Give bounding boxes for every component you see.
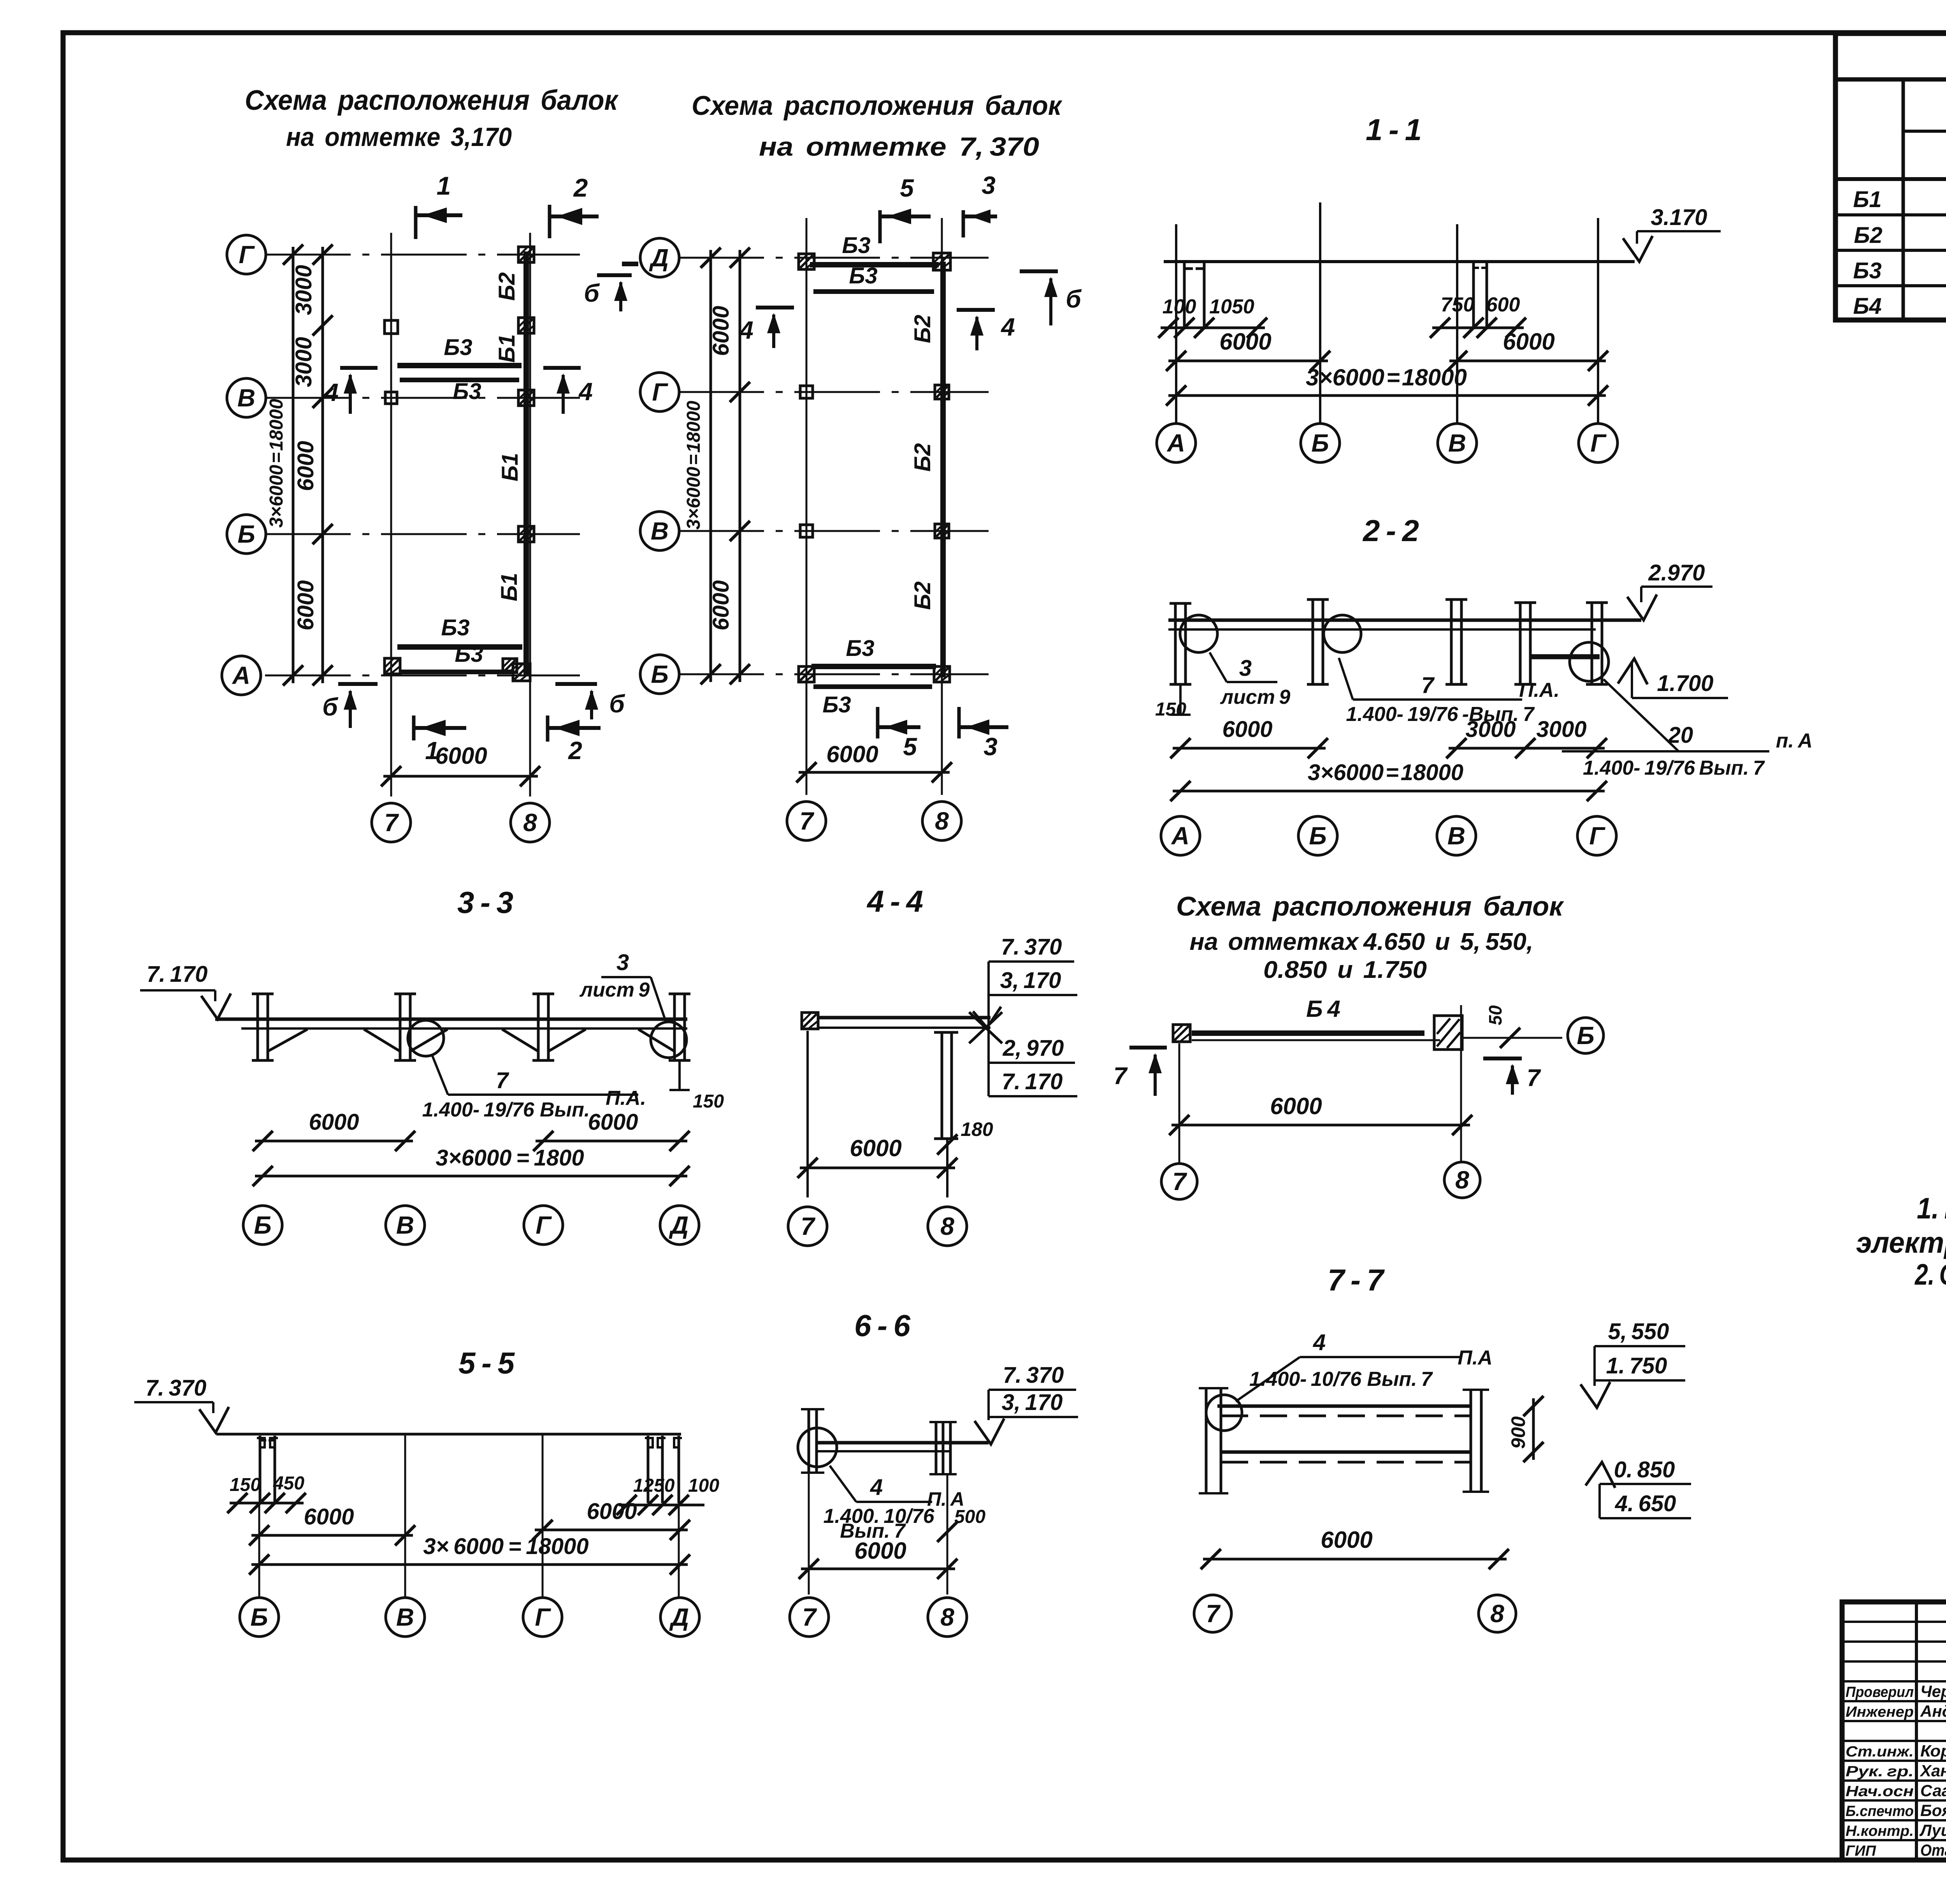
svg-text:3: 3: [1239, 656, 1252, 681]
svg-text:Б3: Б3: [846, 636, 874, 661]
sec7-7 axis circle 7: [1194, 1595, 1231, 1632]
sec6-6 beam lines: [817, 1441, 989, 1445]
svg-text:6000: 6000: [293, 441, 318, 491]
svg-text:4: 4: [324, 378, 339, 406]
svg-text:А: А: [232, 661, 250, 689]
sec2-2 axis circle Б: [1298, 816, 1337, 855]
svg-text:Б3: Б3: [455, 642, 483, 667]
sec3-3 detail circle at В: [408, 1020, 444, 1056]
plan2 bottom dimension 6000: [799, 771, 950, 774]
svg-text:6000: 6000: [587, 1499, 637, 1524]
sec6-6 axis circle 8: [928, 1598, 967, 1637]
plan2 axis circle 8: [922, 802, 961, 840]
sec1-1 dim 750 600: [1432, 327, 1524, 329]
svg-text:7. 370: 7. 370: [1003, 1363, 1064, 1388]
svg-text:на отметках 4.650 и 5, 550,: на отметках 4.650 и 5, 550,: [1190, 928, 1533, 955]
svg-text:В: В: [1448, 429, 1466, 457]
sec4-4 axis circle 8: [928, 1207, 967, 1246]
sec4-4 axis circle 7: [788, 1207, 827, 1246]
svg-text:1.400- 10/76 Вып. 7: 1.400- 10/76 Вып. 7: [1249, 1368, 1433, 1391]
plan1 inner dimension chain 3000 3000 6000 6000: [321, 247, 324, 683]
svg-text:50: 50: [1485, 1005, 1505, 1025]
sec7-7 left column: [1205, 1388, 1208, 1493]
plan1 axis circle Б: [227, 515, 266, 554]
svg-text:1.700: 1.700: [1657, 671, 1713, 696]
svg-text:Н.контр.: Н.контр.: [1846, 1823, 1914, 1839]
svg-text:2.970: 2.970: [1648, 560, 1705, 585]
svg-text:1. Конструкции сварные. Свар: 1. Конструкции сварные. Сварку производи…: [1917, 1192, 1946, 1225]
svg-text:лист 9: лист 9: [1220, 686, 1291, 709]
svg-text:Г: Г: [536, 1211, 552, 1239]
svg-text:0.850 и 1.750: 0.850 и 1.750: [1263, 956, 1427, 983]
svg-text:7: 7: [801, 1212, 816, 1240]
plan1 bottom dimension 6000: [383, 775, 538, 778]
svg-text:2: 2: [568, 737, 582, 765]
svg-text:6000: 6000: [304, 1504, 354, 1530]
plan1 section mark б bottom right: [555, 682, 597, 686]
sec2-2 detail circle at А: [1180, 615, 1217, 652]
svg-text:А: А: [1171, 822, 1189, 850]
svg-text:6000: 6000: [854, 1538, 906, 1564]
sec4-4 dim 180: [937, 1134, 957, 1155]
svg-text:7: 7: [799, 807, 815, 835]
svg-text:Луценко: Луценко: [1919, 1821, 1946, 1839]
svg-text:Д: Д: [669, 1211, 688, 1239]
plan2 outer dimension 3x6000=18000: [710, 250, 712, 682]
svg-text:2. Сварка ручная дуговая: 2. Сварка ручная дуговая hᵤ = 8 мм.: [1914, 1258, 1946, 1291]
svg-text:1 - 1: 1 - 1: [1366, 113, 1422, 147]
svg-text:5: 5: [903, 733, 917, 761]
scheme45 right support hatched: [1434, 1016, 1462, 1050]
svg-text:Б4: Б4: [1853, 294, 1881, 319]
svg-text:8: 8: [1490, 1600, 1504, 1628]
scheme45 left support square: [1173, 1025, 1190, 1042]
svg-text:3×6000 = 18000: 3×6000 = 18000: [266, 399, 287, 527]
table header split line: [1903, 130, 1946, 133]
sec5-5 channel column Б: [259, 1436, 262, 1503]
svg-text:3 - 3: 3 - 3: [457, 885, 513, 919]
sec3-3 axis circle Б: [243, 1206, 282, 1245]
svg-text:на отметке 3,170: на отметке 3,170: [286, 122, 512, 152]
svg-text:2, 970: 2, 970: [1003, 1036, 1064, 1061]
sec3-3 dims 6000 6000: [255, 1140, 413, 1143]
sec6-6 detail circle: [798, 1428, 837, 1467]
sec4-4 break cross at beam end: [969, 1012, 1002, 1043]
svg-text:4: 4: [1313, 1330, 1326, 1355]
sec6-6 dim 6000: [801, 1568, 955, 1570]
svg-text:В: В: [396, 1603, 414, 1631]
svg-text:Г: Г: [535, 1603, 551, 1631]
table Ведомость элементов frame: [1835, 33, 1946, 320]
plan1 open square col7 В: [385, 392, 397, 404]
svg-text:1.400- 19/76 Вып. 7: 1.400- 19/76 Вып. 7: [1583, 757, 1765, 779]
scheme45 section mark 7 left: [1129, 1046, 1167, 1050]
svg-text:3×6000 = 18000: 3×6000 = 18000: [1306, 364, 1467, 390]
svg-text:750: 750: [1441, 294, 1475, 316]
plan1 axis circle 8: [511, 803, 550, 842]
title block outer frame: [1842, 1602, 1946, 1860]
svg-text:Проверил: Проверил: [1846, 1684, 1914, 1700]
sec2-2 detail circle at Б: [1324, 615, 1361, 652]
title block signature table verticals: [1915, 1602, 1918, 1860]
scheme45 axis circle 8: [1444, 1162, 1480, 1198]
sec3-3 column В: [399, 994, 402, 1060]
svg-text:7. 370: 7. 370: [146, 1375, 207, 1401]
scheme45 axis line to Б: [1462, 1037, 1562, 1039]
svg-text:Чернявская: Чернявская: [1920, 1682, 1946, 1700]
sec7-7 top beam: [1217, 1405, 1471, 1408]
svg-text:8: 8: [523, 809, 537, 837]
sec3-3 beam lines: [215, 1018, 687, 1021]
sec7-7 dim 900: [1532, 1398, 1535, 1460]
svg-text:4: 4: [739, 316, 753, 344]
svg-text:0. 850: 0. 850: [1614, 1457, 1675, 1482]
svg-text:Андреева: Андреева: [1920, 1702, 1946, 1720]
svg-text:Г: Г: [652, 378, 668, 406]
plan1 connection squares col7 А: [385, 658, 400, 674]
plan2 beam Б3 top pair: [810, 262, 939, 267]
svg-text:Б1: Б1: [1853, 187, 1881, 212]
sec3-3 axis circle Д: [660, 1206, 699, 1245]
table header bottom line: [1835, 177, 1946, 181]
plan2 section mark 5 top: [878, 210, 882, 243]
svg-text:1. 750: 1. 750: [1606, 1353, 1667, 1378]
svg-text:1050: 1050: [1209, 295, 1254, 318]
sec2-2 axis circle Г: [1577, 816, 1616, 855]
sec3-3 column Д: [673, 994, 676, 1060]
sec2-2 column В: [1450, 600, 1453, 684]
plan1 section mark 2 top: [548, 205, 551, 238]
svg-text:2: 2: [573, 173, 588, 202]
scheme45 axis circle 7: [1161, 1164, 1197, 1199]
plan2 beam Б3 bottom pair: [811, 664, 936, 669]
svg-text:5, 550: 5, 550: [1608, 1319, 1669, 1344]
svg-text:6000: 6000: [708, 580, 734, 630]
plan1 section mark 4 left: [340, 366, 378, 370]
plan2 axis circle В: [640, 512, 679, 550]
svg-text:А: А: [1166, 429, 1185, 457]
sec1-1 dim 3x6000=18000: [1168, 394, 1606, 397]
sec1-1 axis circle В: [1438, 424, 1477, 462]
sec3-3 axis circle В: [386, 1206, 425, 1245]
sec5-5 axis circle Д: [660, 1598, 699, 1637]
sec1-1 dim 100 1050: [1161, 327, 1265, 329]
sec5-5 dim 150 450: [230, 1502, 304, 1505]
plan1 connection squares А: [513, 664, 530, 681]
sec2-2 column Г: [1591, 603, 1593, 684]
svg-text:6000: 6000: [1321, 1527, 1372, 1553]
svg-text:Б3: Б3: [842, 233, 870, 258]
sec5-5 axis circle Б: [240, 1598, 279, 1637]
plan2 connection squares bottom: [799, 666, 814, 682]
svg-text:на отметке 7, 370: на отметке 7, 370: [759, 132, 1039, 162]
sec1-1 column line А: [1175, 224, 1177, 424]
svg-text:П.А.: П.А.: [606, 1087, 646, 1109]
scheme45 dim 6000: [1171, 1124, 1470, 1127]
svg-text:Б1: Б1: [494, 334, 520, 362]
svg-text:Ханин: Ханин: [1920, 1762, 1946, 1780]
plan2 axis circle 7: [787, 802, 826, 840]
svg-text:5 - 5: 5 - 5: [458, 1346, 515, 1380]
plan2 grid column line 8: [941, 218, 943, 795]
svg-text:Б2: Б2: [494, 272, 520, 301]
sec1-1 axis circle Г: [1579, 424, 1618, 462]
svg-text:600: 600: [1486, 294, 1520, 316]
svg-text:180: 180: [961, 1118, 993, 1140]
sec3-3 axis circle Г: [524, 1206, 563, 1245]
sec6-6 left column axis below: [808, 1473, 810, 1595]
sec1-1 channel stub at В: [1472, 262, 1475, 329]
svg-text:6000: 6000: [309, 1109, 359, 1135]
sec2-2 column mid: [1519, 603, 1522, 684]
plan1 grid column line 8: [529, 233, 531, 796]
sec5-5 channel column Д: [647, 1436, 650, 1503]
plan1 beam Б3 upper pair: [397, 363, 522, 368]
svg-text:150: 150: [230, 1475, 261, 1495]
svg-text:4: 4: [1000, 313, 1015, 341]
svg-text:Б1: Б1: [497, 453, 523, 481]
sec2-2 column Б: [1312, 600, 1314, 684]
plan1 outer dimension 3x6000=18000: [292, 247, 295, 683]
sec5-5 beam line: [216, 1433, 681, 1436]
svg-text:6000: 6000: [850, 1135, 901, 1161]
plan1 axis circle 7: [372, 803, 411, 842]
sec2-2 axis circle А: [1161, 816, 1200, 855]
plan2 section mark 5 bottom: [876, 707, 880, 738]
svg-text:б: б: [1066, 285, 1082, 313]
plan2 beam Б2 vertical: [940, 262, 946, 677]
sec3-3 column Б: [256, 994, 259, 1060]
svg-text:Б3: Б3: [822, 692, 851, 717]
svg-text:7: 7: [1172, 1167, 1187, 1195]
svg-text:7: 7: [1114, 1063, 1128, 1090]
plan2 section mark 3 top: [962, 210, 965, 237]
plan2 grid column line 7: [806, 218, 808, 795]
svg-text:7. 370: 7. 370: [1001, 934, 1062, 960]
sec4-4 right column: [941, 1032, 943, 1139]
svg-text:П.А.: П.А.: [1519, 679, 1560, 701]
svg-text:7: 7: [496, 1068, 509, 1093]
svg-text:В: В: [396, 1211, 414, 1239]
svg-text:Нач.осн: Нач.осн: [1846, 1783, 1914, 1800]
svg-text:500: 500: [954, 1507, 985, 1527]
sec6-6 right column: [935, 1422, 938, 1474]
svg-text:Схема расположения балок: Схема расположения балок: [1176, 891, 1565, 921]
title block signature table rows: [1842, 1621, 1946, 1623]
plan2 axis row lines: [678, 257, 989, 259]
svg-text:2 - 2: 2 - 2: [1362, 513, 1419, 548]
sec1-1 axis circle Б: [1301, 424, 1340, 462]
sec5-5 dim 3x6000=18000: [251, 1563, 688, 1566]
svg-text:3×6000 = 18000: 3×6000 = 18000: [1308, 760, 1463, 785]
scheme45 col8 vertical: [1460, 1005, 1462, 1161]
svg-text:Коротенко: Коротенко: [1920, 1742, 1946, 1760]
plan2 axis circle Б: [640, 655, 679, 694]
svg-text:Г: Г: [1590, 429, 1607, 457]
svg-text:3: 3: [984, 733, 998, 761]
plan1 connection square В: [518, 390, 534, 406]
svg-text:Б: Б: [254, 1211, 271, 1239]
svg-text:Инженер: Инженер: [1846, 1704, 1914, 1720]
sec2-2 beam bottom line: [1168, 628, 1596, 631]
svg-text:6000: 6000: [1503, 329, 1554, 355]
sec2-2 dim 3x6000=18000: [1173, 790, 1605, 793]
sec3-3 column Г: [537, 994, 540, 1060]
sec6-6 dim 500: [937, 1522, 957, 1542]
plan1 beam Б3 lower pair: [397, 644, 522, 650]
svg-text:3.170: 3.170: [1651, 205, 1707, 230]
svg-text:Оташевский: Оташевский: [1920, 1841, 1946, 1859]
svg-text:900: 900: [1507, 1416, 1529, 1449]
plan2 connection squares top: [799, 254, 814, 269]
svg-text:Д: Д: [649, 244, 669, 272]
plan2 axis circle Д: [640, 238, 679, 277]
svg-text:Б3: Б3: [453, 379, 481, 404]
svg-text:Б2: Б2: [910, 443, 935, 471]
scheme45 beam Б4: [1192, 1030, 1424, 1036]
scheme45 dim 50: [1500, 1028, 1520, 1048]
plan1 axis circle А: [222, 656, 261, 695]
svg-text:3, 170: 3, 170: [1000, 968, 1061, 993]
sec7-7 right column: [1470, 1390, 1472, 1492]
sec7-7 dim 6000: [1203, 1558, 1507, 1561]
plan1 section mark б top right: [597, 273, 632, 277]
svg-text:б: б: [322, 693, 339, 721]
sec1-1 column line В: [1456, 224, 1458, 424]
plan2 connection square col8 В: [935, 524, 949, 538]
sec1-1 beam line: [1164, 260, 1635, 263]
svg-text:Г: Г: [1589, 822, 1605, 850]
svg-text:6 - 6: 6 - 6: [854, 1308, 911, 1343]
plan1 open square col7 mid: [385, 320, 398, 334]
svg-text:7: 7: [1421, 673, 1435, 698]
svg-text:3, 170: 3, 170: [1002, 1390, 1063, 1415]
sec5-5 column axis lines: [258, 1503, 260, 1598]
svg-text:3000: 3000: [1536, 717, 1586, 742]
svg-text:6000: 6000: [826, 741, 878, 767]
svg-text:100: 100: [1163, 295, 1196, 318]
sec4-4 left column axis: [806, 1031, 809, 1197]
sec5-5 dim 1250 100: [619, 1504, 704, 1507]
svg-text:450: 450: [273, 1473, 304, 1494]
plan2 axis circle Г: [640, 373, 679, 411]
sec1-1 channel stub at А: [1183, 262, 1186, 329]
table title row line: [1835, 77, 1946, 82]
svg-text:Рук. гр.: Рук. гр.: [1846, 1763, 1914, 1780]
sec3-3 knee braces: [268, 1029, 307, 1051]
svg-text:7: 7: [802, 1603, 817, 1631]
sec6-6 axis circle 7: [790, 1598, 829, 1637]
svg-text:6000: 6000: [1222, 717, 1272, 742]
svg-text:8: 8: [940, 1603, 954, 1631]
svg-text:1250: 1250: [633, 1475, 675, 1496]
svg-text:3× 6000 = 18000: 3× 6000 = 18000: [423, 1534, 588, 1559]
svg-text:3000: 3000: [291, 265, 316, 315]
sec3-3 detail circle at Д: [651, 1022, 687, 1058]
svg-text:100: 100: [688, 1475, 719, 1496]
svg-text:8: 8: [1455, 1166, 1469, 1194]
svg-text:6000: 6000: [435, 743, 487, 769]
svg-text:7. 170: 7. 170: [147, 962, 208, 987]
svg-text:6000: 6000: [1270, 1093, 1322, 1119]
svg-text:Д: Д: [669, 1603, 689, 1631]
svg-text:лист 9: лист 9: [579, 979, 650, 1001]
svg-text:Б3: Б3: [441, 615, 469, 640]
svg-text:б: б: [584, 279, 600, 307]
svg-text:8: 8: [940, 1212, 954, 1240]
svg-text:7: 7: [1206, 1600, 1221, 1628]
plan2 open square col7 Г: [800, 386, 813, 398]
svg-text:Схема расположения балок: Схема расположения балок: [245, 85, 619, 116]
sec2-2 column А: [1174, 603, 1177, 684]
plan2 section mark 4 left: [756, 306, 794, 309]
svg-text:б: б: [609, 690, 625, 718]
plan1 connection square 3000: [518, 318, 534, 333]
svg-text:Б.спечто: Б.спечто: [1846, 1803, 1914, 1820]
svg-text:Б: Б: [1311, 429, 1329, 457]
svg-text:8: 8: [935, 807, 949, 835]
svg-text:3000: 3000: [1465, 717, 1516, 742]
sec6-6 left column: [808, 1409, 810, 1473]
svg-text:Схема расположения балок: Схема расположения балок: [692, 90, 1063, 121]
scheme45 col7 vertical: [1178, 1043, 1180, 1162]
scheme45 axis circle Б: [1568, 1018, 1604, 1053]
plan1 axis circle Г: [227, 235, 266, 274]
svg-text:В: В: [1447, 822, 1465, 850]
svg-text:Б2: Б2: [910, 581, 935, 610]
plan2 open square col7 В: [800, 525, 813, 537]
svg-text:6000: 6000: [293, 580, 318, 630]
svg-text:Б: Б: [1309, 822, 1326, 850]
sec2-2 axis circle В: [1437, 816, 1476, 855]
sec3-3 dim 3x6000=1800: [255, 1175, 687, 1178]
svg-text:Б3: Б3: [1853, 258, 1881, 283]
svg-text:7. 170: 7. 170: [1002, 1069, 1063, 1094]
svg-text:Саакьянц: Саакьянц: [1920, 1781, 1946, 1800]
sec1-1 column line Б: [1319, 202, 1321, 424]
svg-text:7 - 7: 7 - 7: [1328, 1263, 1385, 1297]
svg-text:1: 1: [437, 171, 451, 200]
plan1 connection square Б: [518, 526, 534, 542]
svg-text:7: 7: [384, 809, 399, 837]
sec1-1 column line Г: [1597, 218, 1599, 424]
svg-text:В: В: [651, 517, 669, 545]
plan2 section mark б right: [1020, 269, 1058, 273]
svg-text:ГИП: ГИП: [1846, 1843, 1876, 1859]
svg-text:3: 3: [616, 950, 629, 975]
svg-text:3×6000 = 18000: 3×6000 = 18000: [683, 401, 704, 529]
sec7-7 axis circle 8: [1479, 1595, 1516, 1632]
svg-text:Б 4: Б 4: [1306, 996, 1340, 1022]
svg-text:В: В: [237, 384, 255, 412]
svg-text:Б: Б: [651, 660, 668, 688]
svg-text:п. А: п. А: [1776, 730, 1813, 752]
plan1 connection square Г: [518, 247, 534, 262]
svg-text:электродами Э42 по ГОСТ: электродами Э42 по ГОСТ 9467- 75.: [1856, 1226, 1946, 1259]
svg-text:150: 150: [693, 1091, 724, 1112]
sec1-1 dim 6000 right: [1449, 360, 1606, 362]
svg-text:1.400- 19/76 Вып.: 1.400- 19/76 Вып.: [422, 1099, 590, 1121]
scheme45 section mark 7 right: [1483, 1057, 1522, 1060]
plan2 connection square col8 Г: [935, 385, 949, 399]
svg-text:Б1: Б1: [497, 573, 522, 601]
table data row lines: [1835, 213, 1946, 216]
plan1 section mark б bottom left: [338, 682, 378, 686]
plan2 section mark 4 right: [957, 308, 995, 312]
plan1 beam Б1-Б2 vertical line: [523, 251, 529, 675]
table column lines: [1902, 79, 1905, 320]
svg-text:6000: 6000: [708, 306, 734, 356]
